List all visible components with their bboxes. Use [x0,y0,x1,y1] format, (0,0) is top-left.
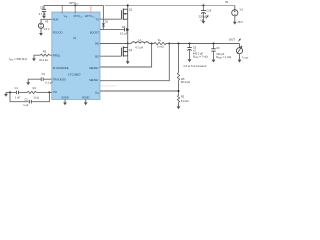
svg-text:R1: R1 [33,86,37,90]
ground under divider [177,105,181,109]
svg-text:C8: C8 [122,25,126,29]
resistor R1 1k (ITH) [27,86,39,100]
ground under C6 [212,58,216,62]
resistor RS 5mOhm [152,38,170,49]
svg-text:C3: C3 [42,72,46,76]
svg-text:SW: SW [95,42,100,46]
svg-text:Q1: Q1 [129,7,133,11]
capacitor C3 0.1uF (TRACK/SS) [28,72,53,84]
faint red line right of IC [101,85,117,87]
svg-text:5 mΩ: 5 mΩ [157,45,163,49]
wire ITH row [36,91,52,93]
ground under V1 [233,20,237,24]
svg-text:1 nF: 1 nF [15,96,21,100]
svg-text:4.7 µF: 4.7 µF [39,12,47,16]
svg-text:0.1 µF: 0.1 µF [120,32,128,36]
current load source ILOAD [236,44,249,60]
IC U1 LTC3807 body [52,12,100,100]
svg-text:3 A to 5 A transient: 3 A to 5 A transient [183,64,206,68]
node input cap junction [202,4,204,6]
wire INTVCC rail [44,5,103,9]
node C6 dot [213,43,215,45]
wire TG to Q1 gate [100,18,121,20]
svg-text:SGND: SGND [61,96,69,100]
transistor Q1 (top NMOS) [121,7,132,19]
wire BOOST [100,29,124,31]
svg-text:PGND: PGND [82,96,90,100]
svg-text:C1: C1 [15,86,19,90]
capacitor C1 1nF (ITH series) [6,86,27,100]
wire SW vertical (Q1 source to power line) [127,19,129,43]
svg-text:PGOOD: PGOOD [53,30,63,34]
node VFB dot [178,90,180,92]
svg-text:90.4 kΩ: 90.4 kΩ [181,80,190,84]
svg-text:28 V: 28 V [238,20,244,24]
wire SENSE+ [100,44,152,68]
ground under C16 [202,19,206,23]
svg-text:C6: C6 [216,46,220,50]
wire EXTVCC pin drop (red) [90,5,92,13]
wire VFB [100,90,179,92]
wire SW pin [100,43,128,45]
node Q1 drain dot [127,4,129,6]
ground under load [238,58,242,62]
svg-text:R2: R2 [181,95,185,99]
svg-text:C9: C9 [40,6,44,10]
svg-text:U1: U1 [73,36,77,40]
diode D1 (INTVCC rail to BOOST) [102,5,109,29]
node sense+ tap dot [151,43,153,45]
node SW junction dot [127,43,129,45]
svg-text:C2: C2 [24,97,28,101]
ground under R3 [32,57,36,61]
capacitor C9 4.7uF [39,6,47,17]
ground SGND [63,101,67,105]
capacitor C16 220uF x2 (input, polarized) [199,5,212,22]
svg-text:FREQ: FREQ [53,53,60,57]
wire BG to Q2 gate [100,55,121,57]
inductor L1 4.7uH [128,38,152,50]
svg-text:BG: BG [95,54,99,58]
voltage source V5 3.3V (RUN) [38,19,51,32]
node C5 dot [189,43,191,45]
svg-text:BOOST: BOOST [90,30,99,34]
svg-text:C16: C16 [206,9,211,13]
svg-text:LTC3807: LTC3807 [68,73,81,77]
node ITH right dot [48,91,50,93]
voltage source V1 28V [232,5,244,24]
wire SGND pin [64,100,66,102]
svg-text:OUT: OUT [229,38,235,42]
svg-text:5.4 kΩ: 5.4 kΩ [181,99,189,103]
svg-text:D1: D1 [105,20,109,24]
ground under C3 [26,81,30,85]
svg-text:TRACK/SS: TRACK/SS [53,77,66,81]
svg-text:4.7 µH: 4.7 µH [135,46,143,50]
node INTVCC junction dot [74,4,76,6]
capacitor C6 100uF [211,44,231,60]
wire VOUT power line [169,43,239,45]
resistor R2 28.7k (divider bottom) [177,95,188,106]
svg-text:IN: IN [225,0,228,4]
wire Q1 drain to VIN rail [127,5,129,9]
svg-text:1 µF: 1 µF [23,103,29,107]
svg-text:1 kΩ: 1 kΩ [33,96,38,100]
svg-text:46.4 kΩ: 46.4 kΩ [39,58,48,62]
ground under C5 [188,58,192,62]
svg-text:RUN: RUN [53,17,59,21]
svg-text:R3: R3 [43,50,47,54]
svg-text:0.1 µF: 0.1 µF [45,81,53,85]
transistor Q2 (bottom NMOS) [121,46,132,56]
svg-text:SENSE−: SENSE− [89,78,99,82]
wire VIN pin drop [61,5,63,13]
ground under Q2 [126,60,130,64]
node boost cap to SW dot [127,29,129,31]
svg-text:Q2: Q2 [129,48,133,52]
svg-text:V1: V1 [240,8,244,12]
svg-text:PLLIN/MODE: PLLIN/MODE [53,66,69,70]
svg-text:3.3 V: 3.3 V [43,27,49,31]
node sense- tap dot [168,43,170,45]
wire PGND pin [85,100,87,102]
wire Q2 drain up to power line [127,44,129,48]
svg-text:V5: V5 [45,20,49,24]
resistor R3 46.4k (FREQ) [34,50,52,63]
capacitor C5 440uF x2 (polarized) [187,44,207,60]
ground PGND [84,101,88,105]
capacitor C8 0.1uF (boost) [120,25,128,35]
wire SENSE- [100,44,169,81]
ground under V5 [39,32,43,36]
ground ITH left [4,92,8,96]
resistor R6 90.4k (divider top) [177,44,190,96]
node ITH left dot [9,91,11,93]
capacitor C2 branch (parallel) [10,92,49,107]
wire INTVCC pin drop [74,5,76,13]
wire Q2 source down [127,56,129,60]
wire VIN rail [105,4,235,6]
node divider top dot [178,43,180,45]
svg-text:ITH: ITH [53,90,57,94]
ground under C9 [42,14,46,18]
svg-text:TG: TG [95,17,99,21]
